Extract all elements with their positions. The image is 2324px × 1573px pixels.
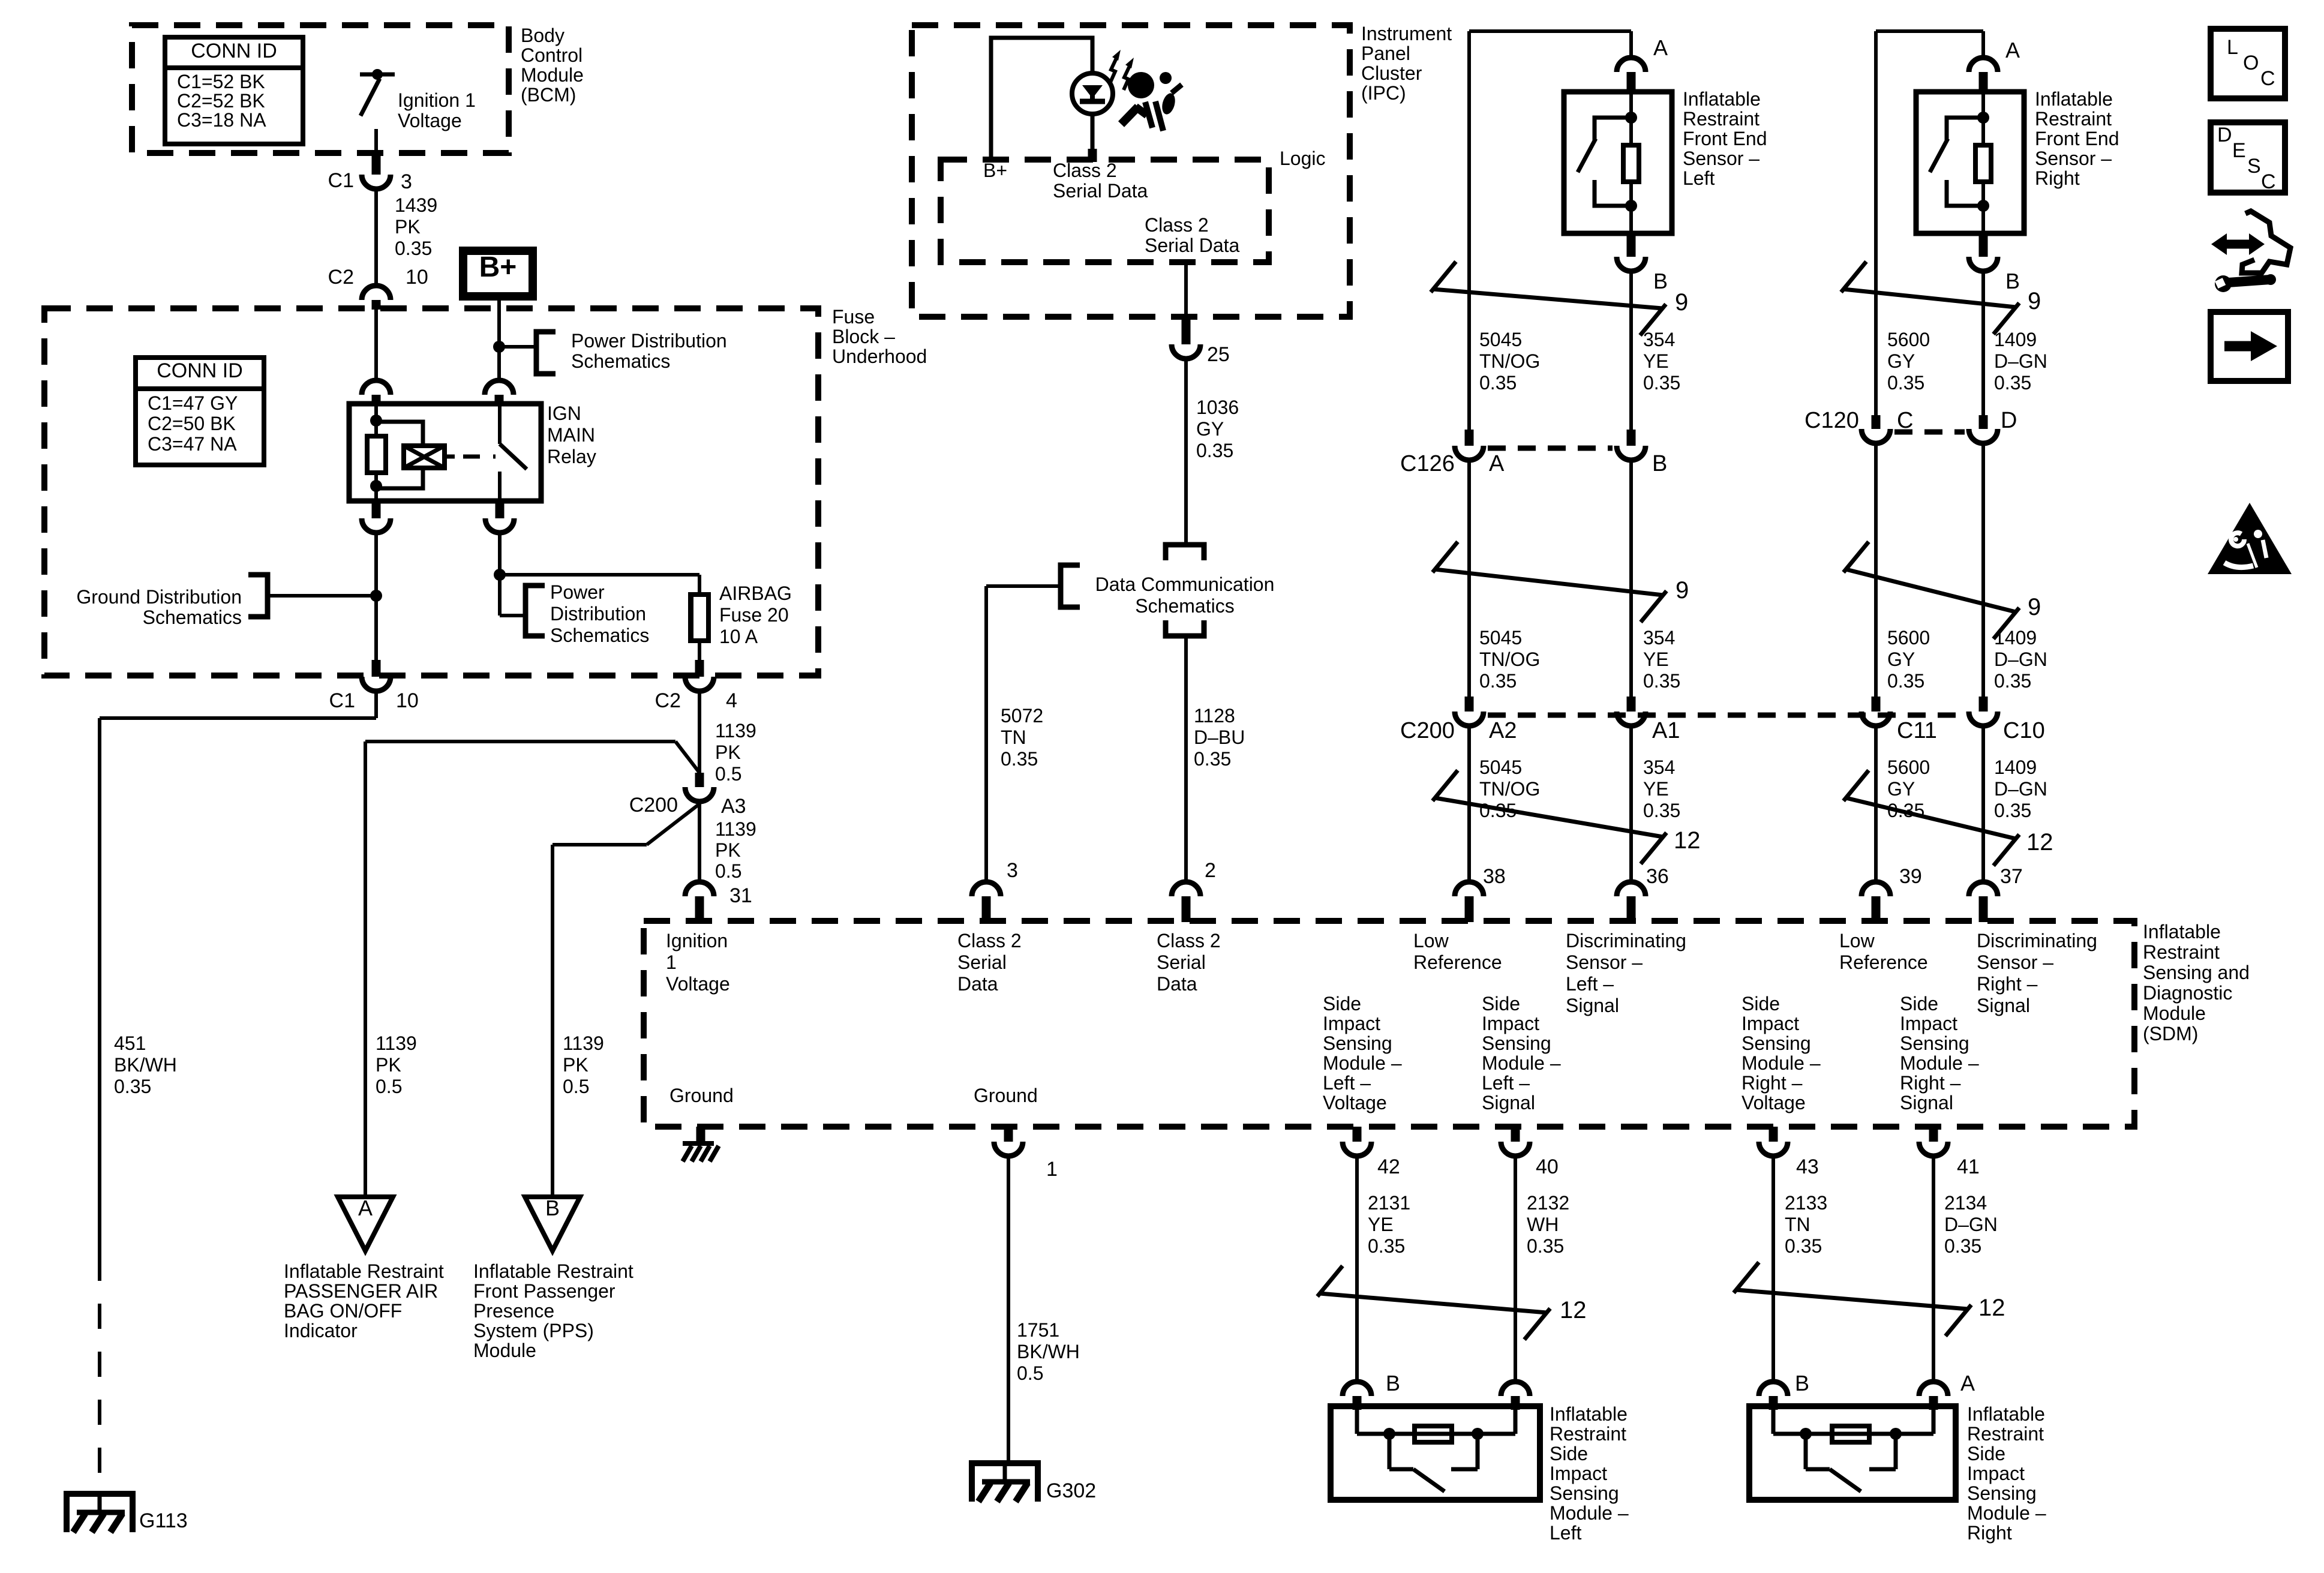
svg-text:Block –: Block – [832,326,895,347]
svg-text:Front Passenger: Front Passenger [473,1280,615,1302]
svg-text:Low: Low [1839,930,1875,951]
svg-text:TN/OG: TN/OG [1479,350,1540,372]
svg-text:2: 2 [1205,859,1216,882]
svg-text:Module –: Module – [1550,1502,1629,1524]
svg-text:C126: C126 [1400,451,1455,476]
svg-text:Inflatable: Inflatable [2035,88,2113,110]
svg-text:A: A [358,1196,373,1220]
svg-text:3: 3 [401,170,412,193]
svg-text:Front End: Front End [2035,128,2119,149]
svg-text:Instrument: Instrument [1361,23,1452,44]
svg-text:C: C [2260,67,2275,90]
svg-text:Presence: Presence [473,1300,554,1322]
svg-text:42: 42 [1377,1155,1400,1178]
svg-text:Inflatable: Inflatable [1967,1403,2045,1425]
svg-text:Side: Side [1742,993,1780,1014]
svg-text:0.5: 0.5 [715,763,741,785]
svg-text:2134: 2134 [1944,1192,1987,1214]
svg-text:Restraint: Restraint [1683,108,1759,130]
svg-text:Low: Low [1413,930,1449,951]
svg-text:Sensing: Sensing [1742,1032,1811,1054]
svg-text:A1: A1 [1652,718,1680,743]
svg-text:36: 36 [1646,865,1669,888]
svg-text:Sensor –: Sensor – [1977,951,2053,973]
svg-text:Side: Side [1967,1443,2005,1464]
svg-text:BAG ON/OFF: BAG ON/OFF [284,1300,402,1322]
svg-text:C2: C2 [328,266,354,289]
svg-text:0.35: 0.35 [1479,670,1517,692]
svg-text:Relay: Relay [547,446,596,467]
svg-text:Ground: Ground [974,1085,1038,1106]
svg-text:0.35: 0.35 [1001,748,1038,770]
svg-text:Ignition: Ignition [666,930,728,951]
svg-text:PK: PK [376,1054,401,1076]
svg-text:2131: 2131 [1368,1192,1410,1214]
svg-text:(SDM): (SDM) [2143,1023,2198,1044]
svg-text:Left: Left [1550,1522,1581,1544]
svg-text:1139: 1139 [715,818,756,840]
svg-text:B+: B+ [983,160,1007,181]
svg-text:Serial: Serial [957,951,1007,973]
svg-text:C3=18 NA: C3=18 NA [177,109,266,131]
svg-text:0.35: 0.35 [1196,440,1233,461]
svg-text:YE: YE [1368,1214,1394,1235]
svg-text:GY: GY [1887,778,1915,800]
svg-text:Ground: Ground [669,1085,734,1106]
svg-text:Sensor –: Sensor – [2035,148,2112,169]
svg-text:Sensing: Sensing [1323,1032,1392,1054]
svg-text:0.35: 0.35 [1527,1235,1564,1257]
svg-text:Discriminating: Discriminating [1566,930,1686,951]
svg-text:Right: Right [2035,167,2080,189]
svg-text:Signal: Signal [1977,995,2030,1016]
svg-text:D: D [2001,408,2017,433]
svg-text:Control: Control [521,44,582,66]
svg-text:Cluster: Cluster [1361,62,1422,84]
svg-text:0.5: 0.5 [1017,1362,1043,1384]
svg-text:Ground Distribution: Ground Distribution [76,586,242,608]
svg-text:Body: Body [521,25,565,46]
svg-text:Distribution: Distribution [550,603,646,625]
svg-text:Inflatable: Inflatable [2143,921,2221,942]
svg-text:Class 2: Class 2 [1053,160,1117,181]
svg-text:C: C [1897,408,1913,433]
svg-text:Side: Side [1482,993,1520,1014]
svg-text:0.35: 0.35 [1944,1235,1981,1257]
svg-text:IGN: IGN [547,403,581,424]
svg-text:WH: WH [1527,1214,1559,1235]
svg-text:0.35: 0.35 [1887,670,1924,692]
svg-text:Impact: Impact [1482,1013,1539,1034]
svg-text:39: 39 [1899,865,1922,888]
svg-text:37: 37 [2000,865,2023,888]
svg-text:0.35: 0.35 [1194,748,1231,770]
svg-text:354: 354 [1643,757,1675,778]
svg-text:Voltage: Voltage [666,973,730,995]
svg-text:9: 9 [1676,577,1689,604]
svg-text:B: B [1653,269,1668,293]
svg-text:Voltage: Voltage [398,110,462,131]
svg-text:1439: 1439 [395,194,437,216]
svg-text:Front End: Front End [1683,128,1767,149]
svg-text:Discriminating: Discriminating [1977,930,2097,951]
svg-text:Signal: Signal [1482,1092,1535,1113]
svg-text:D–BU: D–BU [1194,727,1245,748]
svg-text:0.35: 0.35 [1785,1235,1822,1257]
svg-text:0.35: 0.35 [1994,670,2031,692]
svg-text:YE: YE [1643,649,1669,670]
svg-text:Inflatable Restraint: Inflatable Restraint [284,1260,444,1282]
svg-text:0.35: 0.35 [1643,372,1680,394]
svg-text:PK: PK [395,216,421,238]
svg-text:B+: B+ [479,251,517,283]
svg-text:(BCM): (BCM) [521,84,576,106]
svg-text:A: A [2005,38,2020,62]
svg-text:Left –: Left – [1323,1072,1371,1094]
svg-text:A2: A2 [1489,718,1517,743]
svg-text:12: 12 [1560,1297,1587,1323]
svg-text:12: 12 [1674,827,1701,854]
svg-text:Class 2: Class 2 [957,930,1022,951]
svg-text:TN: TN [1785,1214,1810,1235]
svg-text:38: 38 [1483,865,1506,888]
svg-text:B: B [2005,269,2020,293]
svg-text:C: C [2261,170,2276,193]
svg-text:Schematics: Schematics [550,625,649,646]
svg-text:S: S [2247,155,2261,178]
svg-text:Right –: Right – [1900,1072,1961,1094]
svg-text:Underhood: Underhood [832,346,927,367]
svg-text:Module –: Module – [1482,1052,1561,1074]
svg-text:YE: YE [1643,778,1669,800]
svg-text:PK: PK [715,742,741,763]
svg-text:9: 9 [2028,594,2041,620]
svg-text:0.35: 0.35 [395,238,432,259]
svg-text:O: O [2243,52,2259,74]
svg-text:Left –: Left – [1566,973,1614,995]
svg-text:Sensing: Sensing [1482,1032,1551,1054]
svg-text:Restraint: Restraint [2035,108,2112,130]
svg-text:5045: 5045 [1479,329,1522,350]
svg-text:L: L [2227,36,2238,59]
svg-text:9: 9 [1675,289,1688,316]
svg-text:Module: Module [521,64,584,86]
svg-text:Sensing and: Sensing and [2143,962,2250,983]
svg-text:Left: Left [1683,167,1715,189]
svg-text:Reference: Reference [1413,951,1502,973]
svg-text:1751: 1751 [1017,1319,1059,1341]
svg-text:1036: 1036 [1196,397,1239,418]
svg-text:Impact: Impact [1967,1463,2025,1484]
svg-text:31: 31 [729,884,752,907]
svg-text:Class 2: Class 2 [1145,214,1209,236]
svg-text:D–GN: D–GN [1994,649,2047,670]
svg-text:1: 1 [666,951,677,973]
svg-text:C11: C11 [1897,718,1937,743]
svg-text:0.35: 0.35 [1994,372,2031,394]
svg-text:0.5: 0.5 [563,1076,589,1097]
svg-text:Module: Module [473,1340,536,1361]
svg-text:Side: Side [1323,993,1361,1014]
svg-text:Module –: Module – [1742,1052,1821,1074]
svg-text:TN/OG: TN/OG [1479,778,1540,800]
svg-text:D–GN: D–GN [1944,1214,1998,1235]
svg-text:GY: GY [1196,418,1224,440]
svg-text:GY: GY [1887,350,1915,372]
svg-text:0.5: 0.5 [376,1076,402,1097]
svg-text:CONN ID: CONN ID [191,40,277,62]
svg-text:10: 10 [406,266,428,289]
svg-text:Schematics: Schematics [571,350,670,372]
svg-text:Restraint: Restraint [1550,1423,1626,1445]
svg-text:Serial Data: Serial Data [1145,235,1240,256]
svg-text:Data Communication: Data Communication [1095,574,1275,595]
svg-text:Indicator: Indicator [284,1320,358,1341]
svg-text:Right –: Right – [1742,1072,1803,1094]
svg-text:Schematics: Schematics [1135,595,1234,617]
svg-text:D–GN: D–GN [1994,350,2047,372]
svg-text:Inflatable: Inflatable [1550,1403,1628,1425]
svg-text:BK/WH: BK/WH [1017,1341,1080,1362]
svg-text:Power: Power [550,581,605,603]
svg-text:1139: 1139 [563,1032,604,1054]
svg-text:Sensing: Sensing [1550,1482,1619,1504]
svg-text:C200: C200 [1400,718,1455,743]
svg-text:10: 10 [396,689,419,712]
svg-text:Inflatable Restraint: Inflatable Restraint [473,1260,633,1282]
svg-text:C10: C10 [2003,718,2045,743]
svg-text:Power Distribution: Power Distribution [571,330,727,352]
svg-text:Sensor –: Sensor – [1566,951,1643,973]
svg-text:Diagnostic: Diagnostic [2143,982,2232,1004]
svg-text:Module –: Module – [1323,1052,1402,1074]
svg-text:Fuse: Fuse [832,306,875,328]
svg-text:B: B [1386,1371,1400,1395]
svg-text:MAIN: MAIN [547,424,595,446]
svg-text:B: B [545,1196,560,1220]
svg-text:5045: 5045 [1479,627,1522,649]
svg-text:2132: 2132 [1527,1192,1569,1214]
svg-text:D–GN: D–GN [1994,778,2047,800]
svg-text:0.35: 0.35 [1479,372,1517,394]
svg-text:Class 2: Class 2 [1157,930,1221,951]
svg-text:5045: 5045 [1479,757,1522,778]
svg-text:PK: PK [563,1054,588,1076]
svg-text:TN/OG: TN/OG [1479,649,1540,670]
svg-text:Impact: Impact [1323,1013,1380,1034]
svg-text:12: 12 [1978,1295,2005,1321]
svg-text:Signal: Signal [1900,1092,1953,1113]
svg-text:C2=52 BK: C2=52 BK [177,90,265,112]
svg-text:System (PPS): System (PPS) [473,1320,594,1341]
svg-text:C120: C120 [1804,408,1859,433]
svg-text:1128: 1128 [1194,705,1235,727]
svg-text:0.35: 0.35 [1887,372,1924,394]
svg-text:1409: 1409 [1994,627,2037,649]
svg-text:40: 40 [1536,1155,1559,1178]
svg-text:354: 354 [1643,627,1675,649]
svg-text:Right –: Right – [1977,973,2038,995]
svg-text:3: 3 [1007,859,1018,882]
svg-text:C2: C2 [655,689,681,712]
svg-text:A: A [1489,451,1505,476]
svg-text:0.35: 0.35 [1887,800,1924,821]
svg-text:Left –: Left – [1482,1072,1530,1094]
svg-text:0.35: 0.35 [1994,800,2031,821]
svg-text:Reference: Reference [1839,951,1928,973]
svg-text:5600: 5600 [1887,329,1930,350]
svg-text:PASSENGER AIR: PASSENGER AIR [284,1280,438,1302]
svg-text:Serial: Serial [1157,951,1206,973]
svg-text:Restraint: Restraint [2143,941,2220,963]
svg-text:B: B [1795,1371,1809,1395]
svg-text:Restraint: Restraint [1967,1423,2044,1445]
svg-text:354: 354 [1643,329,1675,350]
svg-text:9: 9 [2028,288,2041,314]
svg-text:1139: 1139 [715,720,756,742]
svg-text:0.35: 0.35 [1368,1235,1405,1257]
svg-text:D: D [2217,124,2232,146]
svg-text:4: 4 [726,689,737,712]
svg-text:BK/WH: BK/WH [114,1054,177,1076]
svg-text:2133: 2133 [1785,1192,1827,1214]
svg-text:Side: Side [1550,1443,1588,1464]
svg-text:Serial Data: Serial Data [1053,180,1148,202]
svg-text:0.35: 0.35 [1479,800,1517,821]
svg-text:(IPC): (IPC) [1361,82,1406,104]
svg-text:Signal: Signal [1566,995,1619,1016]
svg-text:Fuse 20: Fuse 20 [719,604,789,626]
svg-text:A: A [1653,35,1668,60]
svg-text:A: A [1960,1371,1975,1395]
svg-text:Right: Right [1967,1522,2012,1544]
svg-text:Inflatable: Inflatable [1683,88,1761,110]
svg-text:Impact: Impact [1550,1463,1607,1484]
svg-text:TN: TN [1001,727,1026,748]
svg-text:43: 43 [1796,1155,1819,1178]
svg-text:Sensing: Sensing [1967,1482,2037,1504]
svg-text:Sensing: Sensing [1900,1032,1969,1054]
svg-text:YE: YE [1643,350,1669,372]
svg-text:Data: Data [957,973,998,995]
svg-text:41: 41 [1957,1155,1980,1178]
svg-text:C200: C200 [629,794,678,816]
svg-text:Module –: Module – [1900,1052,1979,1074]
svg-text:AIRBAG: AIRBAG [719,583,792,604]
svg-text:C2=50 BK: C2=50 BK [148,413,236,434]
svg-text:5600: 5600 [1887,627,1930,649]
svg-text:Panel: Panel [1361,43,1410,64]
svg-text:Sensor –: Sensor – [1683,148,1759,169]
svg-text:Module –: Module – [1967,1502,2046,1524]
svg-text:Ignition 1: Ignition 1 [398,89,476,111]
svg-text:C3=47 NA: C3=47 NA [148,433,237,455]
svg-text:12: 12 [2026,829,2053,855]
svg-text:Logic: Logic [1280,148,1326,169]
svg-text:G302: G302 [1046,1479,1096,1502]
svg-text:C1=52 BK: C1=52 BK [177,71,265,92]
svg-text:C1: C1 [328,169,354,192]
svg-text:G113: G113 [139,1509,188,1532]
svg-text:451: 451 [114,1032,146,1054]
svg-text:CONN ID: CONN ID [157,359,243,382]
svg-text:25: 25 [1207,343,1230,366]
svg-text:GY: GY [1887,649,1915,670]
svg-text:1139: 1139 [376,1032,417,1054]
svg-text:1409: 1409 [1994,329,2037,350]
svg-text:B: B [1652,451,1667,476]
svg-text:1: 1 [1046,1158,1058,1181]
svg-text:E: E [2232,139,2246,162]
svg-text:Data: Data [1157,973,1197,995]
svg-text:C1=47 GY: C1=47 GY [148,392,238,414]
svg-text:C1: C1 [329,689,355,712]
svg-text:Impact: Impact [1900,1013,1957,1034]
svg-text:1409: 1409 [1994,757,2037,778]
svg-text:Side: Side [1900,993,1938,1014]
svg-text:0.5: 0.5 [715,860,741,882]
svg-text:Schematics: Schematics [143,607,242,628]
svg-text:5072: 5072 [1001,705,1043,727]
svg-text:Module: Module [2143,1002,2206,1024]
svg-text:A3: A3 [721,795,746,818]
svg-text:Voltage: Voltage [1323,1092,1387,1113]
svg-text:5600: 5600 [1887,757,1930,778]
svg-text:0.35: 0.35 [1643,800,1680,821]
svg-text:PK: PK [715,839,741,861]
svg-text:10 A: 10 A [719,626,758,647]
svg-text:0.35: 0.35 [114,1076,151,1097]
svg-text:Voltage: Voltage [1742,1092,1806,1113]
svg-text:0.35: 0.35 [1643,670,1680,692]
svg-text:Impact: Impact [1742,1013,1799,1034]
